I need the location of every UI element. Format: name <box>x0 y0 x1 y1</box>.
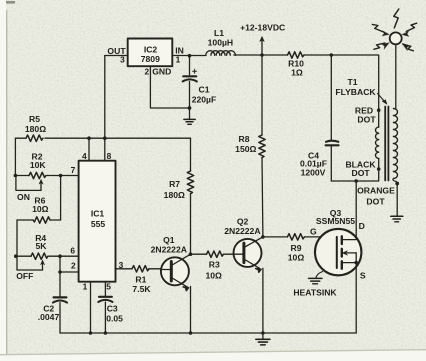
spark bolt lower-right <box>402 44 413 51</box>
node +12-18VDC junction <box>260 53 264 57</box>
wire +V node to R10 <box>262 54 288 56</box>
svg-text:555: 555 <box>91 219 106 229</box>
svg-text:220µF: 220µF <box>192 94 217 104</box>
svg-text:.0047: .0047 <box>38 312 60 322</box>
left rail vertical R5-R2 <box>14 138 16 175</box>
wire secondary bottom to ground <box>396 184 398 216</box>
svg-text:2: 2 <box>144 67 149 77</box>
node R2 right / pin7 junction <box>59 174 63 178</box>
svg-text:Q1: Q1 <box>163 235 175 245</box>
wire OFF loop (R4 wiper to R4 left) <box>17 269 43 271</box>
spark bolt lower-left <box>374 43 390 50</box>
resistor R6 10ohm <box>17 217 61 223</box>
bottom scan edge <box>0 349 426 361</box>
svg-text:2: 2 <box>71 260 76 270</box>
svg-text:3: 3 <box>119 260 124 270</box>
svg-text:10Ω: 10Ω <box>32 204 49 214</box>
capacitor C3 0.05 <box>98 297 112 333</box>
resistor R8 150ohm (vertical) <box>259 135 265 158</box>
T1 secondary winding <box>393 45 398 184</box>
svg-text:2N2222A: 2N2222A <box>224 226 260 236</box>
wire IC2 pin1 IN to node A <box>172 55 206 57</box>
svg-text:8: 8 <box>107 151 112 161</box>
svg-text:DOT: DOT <box>352 168 371 178</box>
IC2 7809 regulator box U-IC2 <box>128 39 173 67</box>
svg-text:1: 1 <box>176 54 181 64</box>
spark bolt upper-right <box>402 23 417 36</box>
V+ rail to R7 (horizontal) <box>15 137 26 139</box>
resistor R9 10ohm <box>287 234 304 240</box>
svg-text:C3: C3 <box>107 304 118 314</box>
node T1 black-dot junction <box>377 167 381 171</box>
wire Q3 source down to ground rail <box>355 275 357 333</box>
svg-text:1Ω: 1Ω <box>291 68 303 78</box>
left scan edge <box>0 0 6 361</box>
resistor R1 7.5K <box>132 266 149 272</box>
svg-text:D: D <box>359 221 365 231</box>
node T1 red-dot junction <box>377 108 381 112</box>
node pin4 junction <box>87 136 91 140</box>
svg-text:3: 3 <box>120 54 125 64</box>
svg-text:5: 5 <box>106 282 111 292</box>
svg-text:G: G <box>310 226 317 236</box>
node Q1 collector junction <box>189 252 193 256</box>
wire Q1 emitter down to ground rail <box>190 287 192 334</box>
node B junction (C4 top / T1 primary top) <box>330 53 334 57</box>
svg-text:+12-18VDC: +12-18VDC <box>240 22 285 32</box>
svg-text:2N2222A: 2N2222A <box>151 244 187 254</box>
wire R2 right down to R6 right <box>60 176 62 221</box>
node Q2 collector junction <box>261 235 265 239</box>
svg-text:HEATSINK: HEATSINK <box>293 288 337 298</box>
top-left smudge <box>6 1 15 4</box>
svg-text:180Ω: 180Ω <box>164 190 185 200</box>
T1 core <box>385 107 388 181</box>
capacitor C2 .0047 <box>53 297 67 333</box>
svg-text:10K: 10K <box>30 160 47 170</box>
wire pin2 <box>60 271 79 273</box>
svg-text:10Ω: 10Ω <box>288 252 305 262</box>
svg-text:GND: GND <box>152 67 171 77</box>
wire pin8 drop <box>104 138 106 161</box>
wire pin6 <box>60 255 79 257</box>
wire pins 2-6 tie down to C2 <box>59 256 61 296</box>
svg-text:R3: R3 <box>209 260 220 270</box>
node pin8 junction <box>103 136 107 140</box>
svg-text:DOT: DOT <box>366 196 385 206</box>
node Q1 emitter on rail <box>189 331 193 335</box>
svg-text:ON: ON <box>17 192 30 202</box>
node A junction (IN / C1 / L1) <box>188 54 192 58</box>
wire pin7 <box>61 175 79 177</box>
svg-text:180Ω: 180Ω <box>25 124 46 134</box>
svg-text:7: 7 <box>71 165 76 175</box>
node: C1 bottom / GND junction <box>188 106 192 110</box>
svg-text:SSM5N55: SSM5N55 <box>316 216 355 226</box>
capacitor C4 0.01uF 1200V <box>326 141 339 181</box>
svg-text:150Ω: 150Ω <box>235 144 256 154</box>
node R4 left junction <box>14 254 18 258</box>
potentiometer R4 5K <box>16 253 60 270</box>
wire R9 to Q3 gate <box>305 236 336 238</box>
spark bolt upper-left <box>372 24 389 36</box>
SECTION: transistor Q2 2N2222A <box>234 237 263 272</box>
wire node B down to C4 <box>330 55 332 141</box>
node T1 orange-dot junction <box>395 182 399 186</box>
wire pin5 down to C3 <box>104 282 106 296</box>
wire R7 top feed (corner) down to R7 <box>190 138 192 171</box>
wire pin4 drop <box>88 138 90 161</box>
node C drain junction <box>354 179 358 183</box>
wire collector node to R9 <box>263 236 288 238</box>
svg-text:7809: 7809 <box>141 54 160 64</box>
wire R10 to node B <box>304 54 331 56</box>
wire L1 to +V node <box>234 54 262 56</box>
wire IC2 pin2 GND down and right to C1 bottom node <box>150 66 189 108</box>
wire collector node to R3 <box>191 253 207 255</box>
spark bolt top <box>394 9 399 28</box>
spark gap electrode circle <box>390 32 402 44</box>
wire R8 top from +V node <box>261 55 263 135</box>
resistor R3 10ohm <box>207 251 224 257</box>
svg-text:R7: R7 <box>169 179 180 189</box>
wire C4 bottom to drain node and T1 primary bottom <box>331 171 378 182</box>
wire R3 to Q2 base <box>225 253 234 255</box>
heatsink symbol <box>309 272 323 284</box>
node R2 left junction <box>14 174 18 178</box>
node C3 on rail <box>104 331 108 335</box>
svg-text:7.5K: 7.5K <box>132 284 151 294</box>
resistor R7 180ohm (vertical) <box>187 171 193 194</box>
svg-text:DOT: DOT <box>357 115 376 125</box>
wire drain node down to Q3 drain <box>355 181 357 231</box>
svg-text:IC1: IC1 <box>91 209 105 219</box>
svg-text:10Ω: 10Ω <box>205 270 222 280</box>
svg-text:FLYBACK: FLYBACK <box>335 87 376 97</box>
svg-text:S: S <box>360 271 366 281</box>
svg-text:ORANGE: ORANGE <box>357 186 395 196</box>
svg-text:6: 6 <box>70 245 75 255</box>
capacitor C1 220uF <box>183 56 197 108</box>
node pin1 on rail <box>89 331 93 335</box>
wire pin1 down to ground rail <box>90 282 92 333</box>
wire R1 to Q1 base <box>149 268 161 270</box>
SECTION: MOSFET Q3 SSM5N55 <box>315 229 361 275</box>
svg-text:100µH: 100µH <box>208 38 234 48</box>
SECTION: transistor Q1 2N2222A <box>161 254 191 290</box>
inductor L1 100uH <box>206 51 236 56</box>
wire R6 left down to R4 left <box>16 220 18 270</box>
wire R5 right to corner above R7 <box>45 137 191 139</box>
wire R8 bottom to Q2 collector node <box>261 158 264 237</box>
svg-text:1200V: 1200V <box>301 168 326 178</box>
svg-text:T1: T1 <box>347 77 357 87</box>
SECTION: IC1 555 box <box>79 161 116 282</box>
svg-text:1: 1 <box>83 282 88 292</box>
svg-text:4: 4 <box>82 151 87 161</box>
FLYBACK pointer arrow <box>378 94 387 105</box>
node Q2 emitter on rail <box>261 331 265 335</box>
T1 primary winding <box>375 109 378 171</box>
svg-text:R5: R5 <box>29 114 40 124</box>
wire Q2 emitter down to ground rail <box>262 268 264 333</box>
ground below secondary <box>391 216 403 222</box>
ground symbol on rail <box>256 333 270 345</box>
resistor R10 1ohm <box>288 52 304 58</box>
svg-text:C1: C1 <box>199 85 210 95</box>
svg-text:OFF: OFF <box>16 271 33 281</box>
node Q3 source internal junction <box>354 261 358 265</box>
wire ground rail <box>60 332 356 334</box>
node R4 right / pin6 junction <box>58 254 62 258</box>
wire R7 bottom to Q1 collector node <box>190 194 192 255</box>
svg-text:0.05: 0.05 <box>106 313 123 323</box>
svg-text:L1: L1 <box>214 28 224 38</box>
wire IC2 pin3 OUT to left vertical <box>105 55 128 57</box>
node pin2 junction <box>58 270 62 274</box>
+12-18VDC supply arrow <box>260 37 264 56</box>
svg-text:5K: 5K <box>36 241 48 251</box>
wire ON loop (R2 wiper to R2 left) <box>16 176 41 191</box>
ground below C1 <box>184 108 195 124</box>
resistor R5 180ohm <box>26 135 43 141</box>
wire pin3 to R1 <box>116 268 133 270</box>
wire node B to T1 primary top corner <box>331 55 378 109</box>
wire OUT vertical down to V+ rail <box>104 56 106 139</box>
potentiometer R2 10K <box>15 172 60 190</box>
svg-text:R8: R8 <box>239 134 250 144</box>
